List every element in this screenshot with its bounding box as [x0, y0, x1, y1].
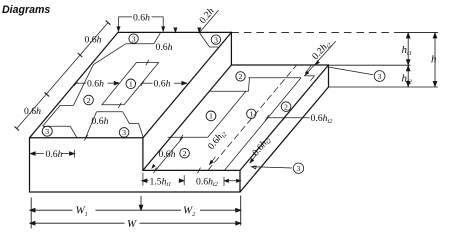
svg-text:0.6h: 0.6h — [133, 12, 150, 23]
tick on step strip line — [180, 135, 183, 141]
circled 3 lower right — [293, 163, 303, 173]
svg-text:0.6h: 0.6h — [92, 116, 109, 127]
h_t1 bottom arrow — [406, 60, 410, 65]
0.6h right arrowhead — [70, 152, 75, 156]
ground level extension line right — [329, 86, 439, 88]
zone 1 parallelogram boundary — [102, 63, 159, 105]
tick on zone1 top connector — [146, 60, 149, 65]
corner notch diagonal — [305, 65, 311, 73]
0.2h_t2 leader arrow low — [305, 71, 308, 75]
0.6h dim right arrowhead — [182, 81, 187, 85]
0.6h dim below front-left right part — [62, 153, 75, 155]
W left arrow — [30, 221, 35, 225]
circled zone number 3 — [42, 126, 52, 136]
0.6h dim right of zone1 — [143, 82, 153, 84]
svg-text:0.6h: 0.6h — [159, 149, 176, 160]
W2 right arrow — [236, 208, 241, 212]
upper roof level extension line solid part — [398, 31, 438, 33]
step bottom edge on lower roof — [143, 65, 232, 170]
right side face bottom edge — [240, 87, 329, 192]
W2 dimension line right part — [200, 209, 241, 211]
0.2h leader diagonal — [199, 10, 218, 33]
h_t2 bottom arrow — [406, 81, 410, 86]
0.6h dim left slash tick — [74, 81, 77, 86]
zone line left strip tread — [60, 104, 73, 106]
0.6h_t2 arrow near right edge — [250, 155, 257, 163]
svg-text:2: 2 — [87, 96, 91, 105]
upper roof back edge — [118, 31, 231, 33]
svg-text:3: 3 — [297, 164, 301, 173]
zone line left strip diagonal lower — [43, 105, 61, 126]
zone line back strip stub — [248, 78, 249, 92]
1.5h_t1 dim line left — [142, 180, 149, 182]
tick on lower roof front edge left — [154, 168, 157, 174]
W dimension line left part — [30, 222, 125, 224]
h_t1 top arrow — [406, 33, 410, 38]
arrow tick on back edge at 0.2h — [198, 28, 201, 33]
circled zone number 1 — [247, 109, 256, 118]
circled 3 upper right — [374, 71, 385, 82]
zone line along step diagonal — [156, 137, 183, 170]
circled zone number 3 — [119, 128, 129, 138]
0.6h_t2 front left arrowhead — [224, 179, 228, 182]
left external dim tick — [106, 21, 111, 25]
0.6h dim left arrow segment — [108, 82, 120, 84]
0.6h_t2 arrowhead near right edge — [250, 159, 254, 163]
zone line corner stub to front edge — [70, 126, 77, 137]
upper roof left edge — [30, 32, 119, 137]
right side face back vertical edge — [328, 65, 330, 87]
zone line back strip horizontal — [126, 43, 154, 45]
zone line staircase horizontal — [209, 90, 248, 92]
leader arrow lower right — [252, 166, 257, 169]
0.6h_t2 extension tick — [223, 177, 225, 186]
zone line right strip diagonal — [224, 78, 301, 171]
0.6h dim below front-left — [30, 153, 44, 155]
0.6h_t2 arrowhead near step — [210, 160, 214, 164]
zone line step strip horizontal — [168, 136, 208, 138]
zone line back strip horizontal — [248, 77, 301, 79]
0.6h dim left arrowhead — [114, 81, 119, 85]
svg-text:1: 1 — [209, 112, 213, 121]
leader line to circled 3 lower right — [252, 167, 293, 168]
svg-text:3: 3 — [122, 128, 126, 137]
circled zone number 2 — [281, 102, 291, 112]
h_t1 h_t2 dimension line vertical — [407, 32, 409, 87]
svg-text:0.6h: 0.6h — [156, 42, 173, 53]
svg-text:3: 3 — [45, 127, 49, 136]
svg-text:3: 3 — [378, 72, 382, 81]
arrow tick on back edge at 0.6h — [174, 28, 177, 33]
bracket left arrow — [117, 27, 120, 32]
1.5h_t1 dim line right — [181, 180, 185, 182]
W1 W2 middle arrow — [139, 205, 143, 210]
zone line back-left connector — [93, 44, 125, 65]
h_t2 top arrow — [406, 66, 410, 71]
corner notch stub — [311, 76, 315, 81]
tick on left edge — [73, 82, 78, 86]
circled zone number 3 — [211, 35, 220, 44]
W1 W2 dimension line middle part — [96, 209, 182, 211]
zone line right corner staircase — [123, 112, 143, 137]
0.6h dim right arrow segment — [174, 82, 187, 84]
circled zone number 1 — [126, 79, 136, 89]
svg-text:0.6h: 0.6h — [85, 35, 102, 46]
lower roof back edge — [231, 64, 328, 66]
zone line staircase diagonal — [208, 91, 246, 137]
zone line mid step horizontal — [97, 111, 123, 113]
tick on zone1 bottom connector — [118, 103, 121, 109]
1.5h_t1 extension line left — [142, 173, 144, 186]
svg-text:h: h — [431, 54, 437, 66]
0.6h dim left of zone1 — [76, 82, 86, 84]
left external dim tick — [14, 127, 19, 131]
zone line back-right corner stub — [199, 33, 218, 47]
svg-text:0.6h: 0.6h — [87, 79, 104, 90]
circled zone number 3 — [129, 34, 138, 43]
building front-right vertical edge — [239, 170, 241, 192]
svg-text:Diagrams: Diagrams — [2, 4, 50, 16]
svg-text:1: 1 — [249, 110, 253, 119]
circled zone number 2 — [236, 72, 245, 81]
left external dim tick — [45, 92, 50, 96]
W1 dimension line — [30, 209, 73, 211]
extension line right — [240, 196, 242, 226]
1.5h_t1 left arrowhead — [142, 179, 147, 183]
extension line middle — [140, 196, 142, 210]
0.6h_t2 dim slash tick inner — [265, 115, 268, 120]
svg-text:2: 2 — [239, 72, 243, 81]
small arrow near step bottom — [152, 165, 155, 168]
W dimension line right part — [140, 222, 241, 224]
step back vertical edge — [230, 32, 232, 65]
circled zone number 2 — [180, 148, 190, 158]
circled zone number 1 — [206, 111, 216, 121]
step top edge / upper roof right edge — [143, 32, 232, 137]
svg-text:0.6h: 0.6h — [24, 106, 41, 117]
step front vertical edge — [142, 138, 144, 171]
tick on lower roof front edge right — [198, 168, 201, 174]
h dimension line vertical — [434, 32, 436, 87]
lower roof level extension line — [329, 64, 411, 66]
h top arrow — [433, 33, 437, 38]
0.6h dim right slash tick — [141, 81, 144, 86]
zone line mid step diagonal to front — [86, 112, 97, 138]
zone line corner step horizontal — [43, 125, 71, 127]
svg-text:2: 2 — [284, 102, 288, 111]
0.6h_t2 dim line right side — [267, 117, 310, 119]
svg-text:1: 1 — [129, 80, 133, 89]
svg-text:2: 2 — [183, 149, 187, 158]
svg-text:0.6h: 0.6h — [46, 149, 63, 160]
left external 0.6h dimension line — [17, 23, 108, 129]
upper roof level dashed extension line — [231, 31, 398, 33]
0.6h end tick vertical — [74, 150, 76, 158]
0.6h_t2 dim slash tick on edge — [283, 115, 286, 120]
upper roof front edge — [30, 137, 143, 139]
0.6h_t2 dim line front — [224, 180, 241, 182]
extension line left — [30, 198, 32, 229]
h bottom arrow — [433, 81, 437, 86]
svg-text:3: 3 — [214, 35, 218, 44]
left external dim tick — [78, 53, 83, 57]
0.6h top bracket — [119, 17, 164, 30]
0.2h_t2 leader diagonal — [305, 41, 336, 75]
zone line left strip diagonal upper — [73, 65, 93, 106]
W1 left arrow — [30, 208, 35, 212]
ground front edge — [30, 191, 241, 193]
W right arrow — [236, 221, 241, 225]
1.5h_t1 right arrowhead — [179, 179, 184, 183]
bracket right arrow — [162, 27, 165, 32]
building front-left vertical edge — [29, 138, 31, 192]
0.6h_t2 arrow near step — [210, 157, 216, 165]
circled zone number 2 — [84, 95, 94, 105]
svg-text:W: W — [127, 218, 137, 230]
zone line back strip stub to back edge — [154, 33, 161, 44]
leader line to circled 3 upper right — [330, 67, 374, 75]
corner notch horizontal — [304, 75, 315, 77]
0.6h_t2 front right arrowhead — [237, 179, 241, 182]
0.6h left arrowhead — [30, 152, 35, 156]
dash-dot zone boundary — [208, 65, 297, 170]
svg-text:3: 3 — [132, 34, 136, 43]
lower roof right edge — [240, 65, 329, 170]
0.2h_t2 leader arrow mid — [316, 61, 319, 65]
lower roof front edge — [143, 169, 240, 171]
tick on front edge — [84, 135, 87, 141]
1.5h_t1 extension tick — [183, 175, 185, 185]
svg-text:0.6h: 0.6h — [154, 79, 171, 90]
